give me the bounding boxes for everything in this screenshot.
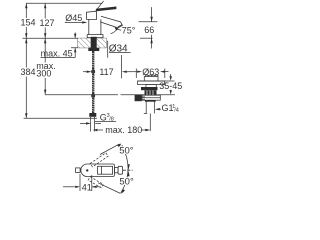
svg-text:154: 154 bbox=[20, 18, 35, 28]
svg-text:Ø34: Ø34 bbox=[109, 44, 128, 55]
svg-text:/4: /4 bbox=[174, 108, 179, 114]
svg-text:max. 45: max. 45 bbox=[41, 48, 73, 58]
svg-text:300: 300 bbox=[36, 69, 51, 79]
svg-text:Ø63: Ø63 bbox=[142, 67, 159, 77]
svg-text:max. 180: max. 180 bbox=[105, 125, 142, 135]
svg-text:127: 127 bbox=[39, 18, 54, 28]
svg-text:66: 66 bbox=[144, 25, 154, 35]
svg-text:75°: 75° bbox=[122, 25, 136, 35]
svg-text:384: 384 bbox=[20, 67, 35, 77]
svg-text:117: 117 bbox=[99, 67, 113, 77]
svg-text:35-45: 35-45 bbox=[159, 81, 182, 91]
svg-text:50°: 50° bbox=[119, 177, 134, 188]
svg-text:50°: 50° bbox=[119, 146, 134, 157]
svg-text:41: 41 bbox=[82, 182, 92, 192]
svg-text:Ø45: Ø45 bbox=[65, 13, 82, 23]
svg-text:/8: /8 bbox=[109, 117, 114, 123]
